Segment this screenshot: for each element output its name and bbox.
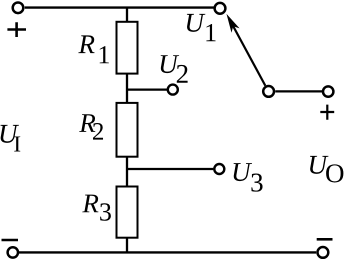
label U1 <box>187 14 205 32</box>
minus sign bottom-right <box>317 238 333 241</box>
wire bottom rail <box>19 251 316 253</box>
terminal top-left <box>13 3 24 14</box>
label U2 <box>161 55 179 73</box>
wire R1 to R2 <box>126 74 128 104</box>
terminal U1 tap top <box>215 3 226 14</box>
label U_O <box>310 156 328 174</box>
switch wiper arrowhead <box>227 14 240 33</box>
wire vertical from top wire to R1 <box>126 8 128 23</box>
label R1 <box>78 35 94 53</box>
output + terminal <box>323 86 333 96</box>
terminal bottom-right <box>318 247 329 258</box>
switch wiper line <box>232 24 265 86</box>
label U_I <box>0 125 18 143</box>
wire R2 to R3 <box>126 157 128 188</box>
resistor R2 <box>117 103 138 157</box>
label R2 <box>79 114 95 132</box>
wire tap stub to U2 <box>127 88 167 90</box>
label U3 <box>234 163 252 181</box>
minus sign bottom-left <box>2 239 19 242</box>
plus sign input <box>7 22 26 37</box>
terminal bottom-left <box>8 247 18 257</box>
label R3 <box>82 195 98 213</box>
wire top horizontal <box>25 6 214 8</box>
switch pole terminal <box>263 86 274 97</box>
resistor R1 <box>117 22 138 74</box>
wire tap stub to U3 <box>127 168 213 170</box>
plus sign output <box>320 105 334 120</box>
terminal U3 tap <box>214 164 224 174</box>
terminal U2 tap <box>168 85 178 95</box>
wire R3 to bottom rail <box>126 238 128 253</box>
resistor R3 <box>117 187 138 238</box>
wire switch pole to output <box>275 90 322 92</box>
